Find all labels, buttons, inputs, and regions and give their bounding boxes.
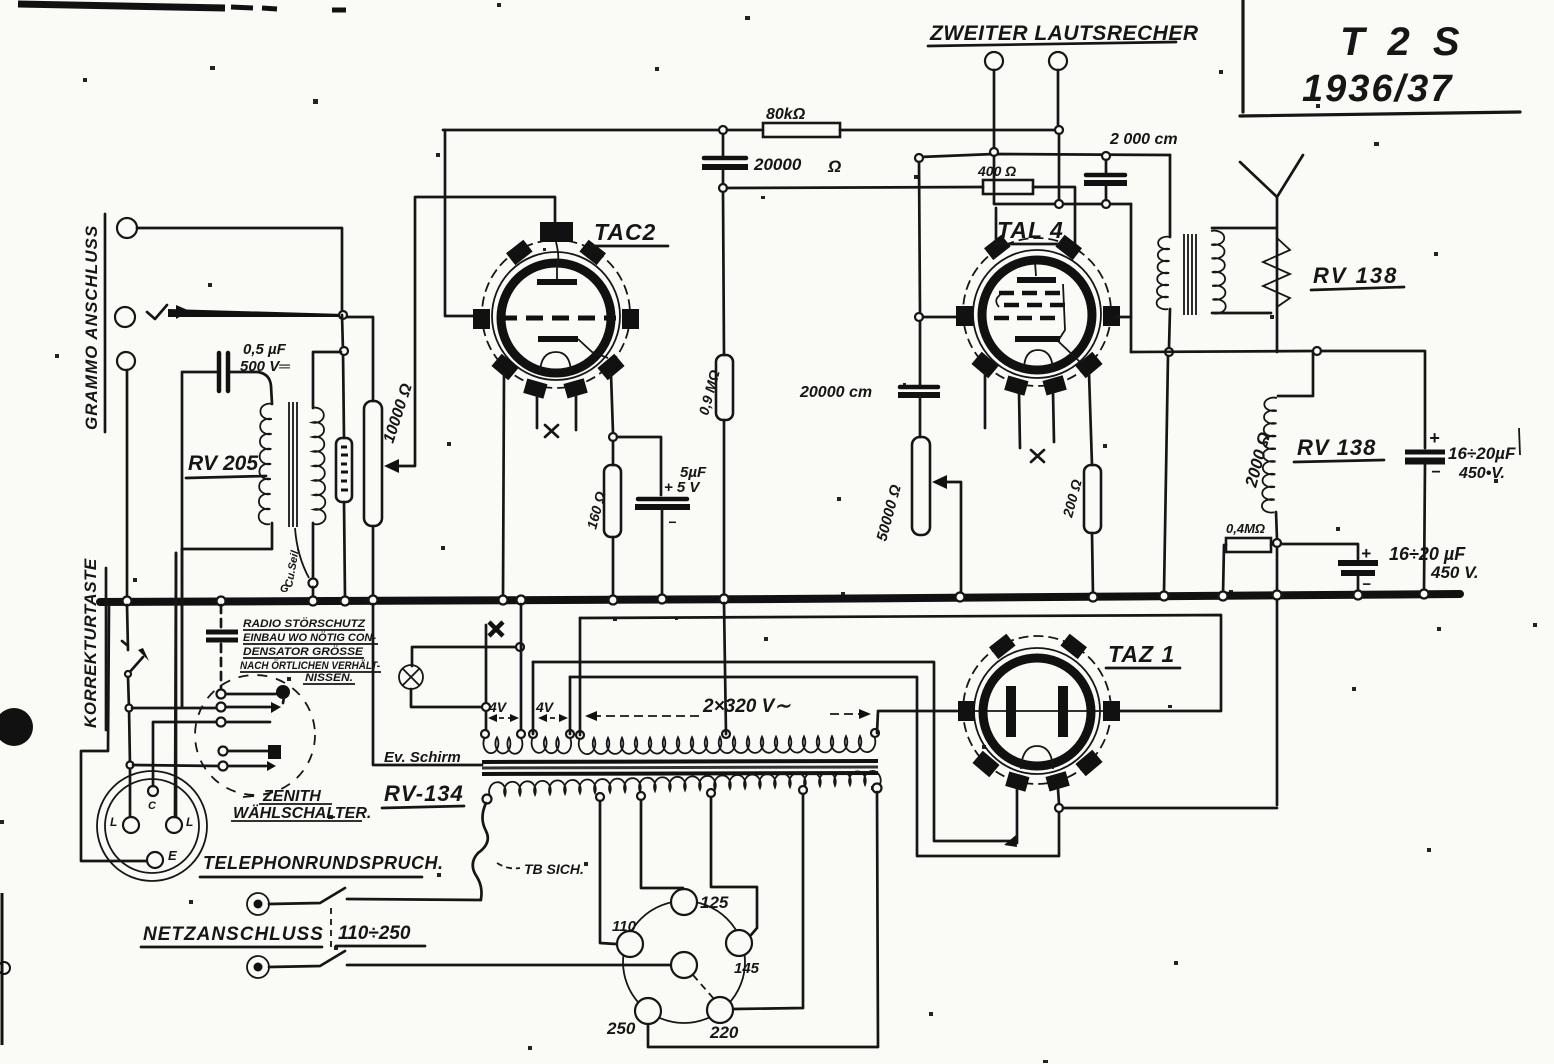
tube TAL4 envelope (963, 238, 1111, 386)
svg-text:110÷250: 110÷250 (338, 923, 411, 944)
tap wire 250 (648, 792, 878, 1047)
potentiometer 50000 wiper arrow (932, 475, 947, 489)
svg-text:KORREKTURTASTE: KORREKTURTASTE (81, 558, 100, 728)
secondary mains winding (483, 795, 492, 804)
potentiometer 10000 Ohm body (364, 401, 382, 526)
svg-text:145: 145 (734, 960, 760, 977)
tap wire 125 (641, 800, 683, 889)
wire anode pin to node C (611, 374, 613, 433)
voltage selector circle (623, 901, 745, 1023)
wire selector feeds (181, 549, 184, 707)
transformer RV205 primary coil (259, 404, 272, 525)
tube TAL4 cathode (1024, 350, 1053, 370)
shield braid line (295, 528, 309, 578)
resistor 0,9 MOhm (716, 355, 733, 420)
wire filament pin stubs (537, 396, 576, 430)
wire lower rail (994, 156, 1131, 204)
svg-text:450•V.: 450•V. (1458, 465, 1505, 482)
tap wire 110 (600, 801, 616, 944)
wire 0,9M to bus (723, 420, 726, 598)
x mark unconnected (545, 425, 558, 437)
wire secondary top to node B (313, 352, 341, 408)
zenith selector dashed circle (195, 675, 315, 795)
wire node N to cap1 (1321, 351, 1425, 448)
contact row3 (217, 718, 226, 727)
switch arm (wedge) (168, 309, 345, 317)
korrektur switch lever (128, 657, 143, 674)
svg-text:L: L (110, 815, 117, 829)
svg-text:NACH ÖRTLICHEN VERHÄLT-: NACH ÖRTLICHEN VERHÄLT- (240, 659, 380, 672)
wire cap2 to bus (1357, 576, 1360, 592)
capacitor 5uF plates (638, 497, 687, 502)
transformer RV205 core (289, 402, 297, 527)
wire anode pin down (1089, 373, 1092, 465)
svg-text:20000: 20000 (753, 155, 802, 174)
tap wire 145 (711, 797, 757, 935)
node I junction (1102, 152, 1110, 160)
korrektur switch fixed stub (122, 605, 128, 650)
tube TAZ1 anode plates (1006, 686, 1016, 737)
svg-text:TELEPHONRUNDSPRUCH.: TELEPHONRUNDSPRUCH. (203, 853, 444, 873)
switch contact check (147, 305, 167, 319)
transformer output primary coil (1157, 237, 1170, 310)
wire pair down to selector (176, 549, 182, 819)
svg-text:L: L (186, 815, 193, 829)
wire pole1 to fuse (347, 899, 481, 900)
wire node N jog to choke top (1278, 353, 1313, 396)
connector pin L left (123, 817, 139, 833)
svg-text:20000 cm: 20000 cm (799, 384, 872, 401)
wire cathode to B+ riser (1063, 807, 1277, 810)
transformer RV205 secondary coil (312, 408, 326, 525)
wire heater branch from bus (520, 604, 523, 732)
fuse Tb Sich curve (473, 803, 488, 899)
svg-text:C: C (148, 800, 157, 812)
terminal gramophone 2 (115, 307, 135, 327)
node R junction (126, 705, 133, 712)
tube TAC2 anode bar (538, 336, 578, 342)
svg-text:16÷20 µF: 16÷20 µF (1389, 544, 1466, 564)
wire speaker2 to secondary line (1058, 134, 1061, 200)
wire heater no2 return (570, 677, 1059, 856)
wire speaker1 down (993, 70, 996, 148)
switch gang dashes (330, 908, 332, 950)
capacitor 20000 plates (704, 156, 746, 161)
svg-text:DENSATOR GRÖSSE: DENSATOR GRÖSSE (243, 645, 364, 658)
wire vertical to output rail (1130, 204, 1133, 352)
potentiometer wiper arrow (384, 459, 399, 473)
wire terminal1 to node A (137, 228, 342, 315)
winding HV 2x320V (576, 731, 584, 739)
capacitor C 0,5uF plates (219, 353, 228, 391)
wire pilot branch (485, 625, 488, 732)
resistor 0,4 MOhm (1226, 538, 1271, 552)
wire HV right end to left anode (877, 711, 957, 733)
tube TAC2 envelope (482, 240, 630, 388)
terminal mains 2 (247, 956, 269, 978)
transformer core RV134 (482, 761, 878, 762)
connector pin L right (166, 817, 182, 833)
resistor RV138 field zigzag (1263, 238, 1290, 307)
HV center tap (722, 730, 730, 738)
wire primary bottom to node M (1169, 309, 1170, 348)
winding 4V no2 (529, 730, 537, 738)
node O junction (1273, 539, 1281, 547)
selector contact 220 (707, 997, 733, 1023)
wire secondary top rail (920, 154, 1170, 157)
svg-text:80kΩ: 80kΩ (766, 106, 806, 123)
wire HT feed down to grid pin (445, 130, 478, 316)
capacitor 2000cm plates (1086, 173, 1125, 178)
terminal mains 1 (247, 893, 269, 915)
wire HV left end to anode loop (579, 618, 582, 735)
tube TAC2 grid bar (556, 242, 558, 279)
wire node O through bus to TAZ1 cathode (1276, 547, 1279, 805)
resistor R-grid (small, value inside) (336, 438, 352, 502)
wire 0,4M left lead to bus (1223, 545, 1226, 595)
dimension arrows 4V windings (490, 717, 517, 719)
transformer output secondary coil (1211, 231, 1226, 314)
wire to 0,9 M resistor (723, 192, 724, 355)
wire cathode pins down (1016, 789, 1019, 843)
wire node M to bus (1164, 356, 1168, 592)
wire through tube filament line (966, 710, 1110, 712)
svg-text:2×320 V∼: 2×320 V∼ (702, 696, 791, 717)
ground bus line (100, 594, 1460, 602)
wire cathode pin to bus (503, 374, 504, 598)
svg-text:TAC2: TAC2 (594, 219, 656, 245)
bus junction nodes (123, 597, 132, 606)
contact row2 (217, 703, 226, 712)
svg-text:125: 125 (700, 893, 729, 912)
node S junction (127, 762, 134, 769)
wire row2 link (132, 707, 216, 710)
tube TAZ1 cathode (1021, 746, 1053, 769)
node M junction (1165, 348, 1173, 356)
selector contact 125 (671, 889, 697, 915)
tap wire 220 (734, 794, 803, 1009)
contact row4 (219, 747, 228, 756)
tube TAC2 cathode (540, 352, 571, 372)
svg-text:16÷20µF: 16÷20µF (1448, 444, 1516, 463)
resistor 80kOhm (763, 123, 840, 137)
node E junction (719, 184, 727, 192)
wire node A down (342, 315, 344, 438)
wire secondary top to antenna (1212, 227, 1276, 230)
stoerschutz dashed lead (220, 605, 223, 628)
svg-text:2 000 cm: 2 000 cm (1109, 131, 1178, 148)
svg-text:GRAMMO ANSCHLUSS: GRAMMO ANSCHLUSS (82, 225, 101, 430)
title box frame (1241, 0, 1244, 112)
svg-text:Ev. Schirm: Ev. Schirm (384, 749, 461, 766)
tube TAC2 top cap (540, 222, 573, 242)
tube TAL4 screen dashes (999, 291, 1062, 296)
shield line from bus (373, 604, 482, 765)
node A junction (339, 311, 347, 319)
contact row1 (217, 690, 226, 699)
node T junction (1055, 804, 1063, 812)
svg-text:WÄHLSCHALTER.: WÄHLSCHALTER. (233, 804, 371, 822)
selector contact 250 (635, 998, 661, 1024)
terminal speaker 2 (1049, 52, 1067, 70)
tube TAL4 pins (984, 235, 1011, 260)
wire node L to grid pin (923, 316, 962, 319)
node H junction (915, 154, 923, 162)
tube TAZ1 pins (989, 634, 1016, 659)
resistor 400 Ohm (983, 180, 1033, 194)
wire pin to rail (995, 208, 998, 240)
wire lamp top loop (412, 647, 517, 666)
stoerschutz dashed lead lower (220, 644, 223, 688)
wire grid pin feed (919, 162, 920, 313)
svg-text:TAZ 1: TAZ 1 (1108, 641, 1175, 667)
svg-text:TAL 4: TAL 4 (997, 217, 1064, 243)
svg-text:RV 138: RV 138 (1313, 263, 1398, 288)
wire pin C to row3 (153, 722, 217, 786)
svg-text:1936/37: 1936/37 (1302, 68, 1453, 110)
svg-text:RV-134: RV-134 (384, 781, 464, 806)
wire coupling to 400 Ohm (727, 187, 983, 188)
wire node O to cap2 (1281, 544, 1358, 559)
svg-text:RV 205: RV 205 (188, 452, 258, 475)
antenna symbol (1240, 155, 1303, 197)
wire secondary bottom to bus (312, 523, 315, 579)
svg-text:220: 220 (709, 1023, 739, 1042)
wire choke bottom to node O (1276, 512, 1277, 539)
contact row5 (219, 762, 228, 771)
wire 200 Ohm to bus (1092, 533, 1093, 596)
mains switch pole 2 (269, 951, 345, 967)
wire row5 link (133, 765, 218, 766)
svg-text:RV 138: RV 138 (1297, 435, 1376, 460)
secondary taps nodes (596, 793, 604, 801)
choke 2000 Ohm coil (1262, 398, 1277, 513)
selector rotor dashes (693, 975, 714, 999)
wire 0,4M right lead to node O (1271, 544, 1273, 545)
wire pin L right up (175, 553, 176, 817)
svg-text:4V: 4V (488, 699, 508, 715)
terminal gramophone 3 (117, 352, 135, 370)
svg-text:RADIO STÖRSCHUTZ: RADIO STÖRSCHUTZ (243, 617, 366, 630)
terminal speaker 1 (985, 52, 1003, 70)
wire resistor to bus (344, 502, 345, 598)
svg-text:400 Ω: 400 Ω (977, 163, 1016, 179)
svg-text:250: 250 (606, 1019, 636, 1038)
wire lamp bottom loop (411, 689, 482, 707)
wire terminal3 to bus (126, 370, 129, 598)
svg-text:Ω: Ω (827, 157, 841, 176)
wire pin stub left (984, 373, 987, 428)
wire primary bottom return (182, 523, 272, 549)
terminal gramophone 1 (117, 218, 137, 238)
wire pot top to node A (347, 317, 373, 401)
node N junction (1313, 347, 1321, 355)
x mark unconnected (1031, 450, 1044, 462)
wire cap1 to bus (1424, 464, 1425, 591)
wire heater no2 loop (533, 662, 1012, 841)
wire HV center tap from bus (724, 603, 726, 734)
wire B+ rail (1131, 351, 1313, 352)
tube TAL4 anode bar (1015, 336, 1060, 342)
tube TAC2 screen dashes (500, 316, 616, 321)
transformer output core (1184, 234, 1196, 315)
svg-text:EINBAU WO NÖTIG CON-: EINBAU WO NÖTIG CON- (243, 631, 376, 644)
connector plug outer (97, 771, 207, 881)
node D junction (719, 126, 727, 134)
tube TAL4 grid bar (1035, 262, 1036, 276)
node G junction (990, 148, 998, 156)
capacitor 16+20uF no2 plates (1338, 560, 1378, 566)
node K junction (1102, 200, 1110, 208)
node P junction (516, 643, 524, 651)
svg-text:ZENITH: ZENITH (262, 788, 321, 805)
svg-text:+: + (1361, 544, 1371, 563)
svg-text:E: E (168, 848, 177, 863)
connector pin E (147, 852, 163, 868)
svg-text:T 2 S: T 2 S (1340, 20, 1466, 64)
resistor 160 Ohm (604, 465, 621, 537)
wire cap right lead to primary top (230, 372, 272, 404)
wire speaker2 down (1057, 70, 1060, 126)
svg-text:NISSEN.: NISSEN. (305, 672, 353, 684)
svg-text:NETZANSCHLUSS: NETZANSCHLUSS (143, 924, 324, 945)
lamp dial (399, 665, 423, 689)
svg-text:−: − (1431, 464, 1440, 481)
wire filament stubs (1019, 392, 1054, 448)
potentiometer 50000 Ohm (912, 437, 930, 535)
capacitor stoerschutz plates (206, 630, 238, 635)
svg-text:0,5 µF: 0,5 µF (243, 341, 287, 358)
tube TAC2 pins (506, 240, 533, 265)
node F junction (1055, 126, 1063, 134)
mains switch pole 1 (269, 888, 345, 904)
wire lever down to pin L (128, 677, 130, 818)
connector pin C (148, 786, 158, 796)
node copper braid (309, 579, 318, 588)
winding 4V no1 (481, 730, 489, 738)
node J junction (1055, 200, 1063, 208)
wire right pin to vertical (1118, 316, 1131, 319)
wire HT rail top (443, 129, 719, 132)
svg-text:+ 5 V: + 5 V (664, 479, 701, 496)
svg-text:+: + (1429, 428, 1440, 448)
wire node C to cap 5uF (617, 437, 661, 495)
wire 5uF to bus (661, 509, 664, 598)
resistor 200 Ohm (1084, 465, 1101, 533)
tube TAZ1 envelope (963, 636, 1111, 784)
svg-text:TB SICH.: TB SICH. (524, 861, 584, 877)
node L junction (915, 313, 923, 321)
svg-text:0,4MΩ: 0,4MΩ (1226, 521, 1265, 536)
svg-text:−: − (1362, 576, 1371, 593)
wire pole2 to selector center (347, 964, 670, 967)
svg-text:110: 110 (612, 918, 637, 935)
wire pot bottom to bus (372, 526, 375, 600)
capacitor 20000cm plates (900, 385, 938, 390)
wire cap left lead (182, 372, 217, 549)
capacitor 16+20uF no1 plates (1405, 450, 1445, 455)
wire rail corner to primary (1169, 155, 1172, 237)
node C junction (609, 433, 617, 441)
wire secondary bottom return (1212, 312, 1271, 315)
svg-text:−: − (668, 514, 676, 530)
node Q junction (482, 703, 490, 711)
selector contact 145 (726, 930, 752, 956)
node B junction (340, 347, 348, 355)
svg-text:4V: 4V (535, 699, 555, 715)
wire bus end down to box (108, 605, 109, 750)
connector box bracket (81, 751, 147, 861)
svg-text:450 V.: 450 V. (1430, 563, 1479, 582)
dimension line 2x320 (592, 714, 866, 716)
X mark pilot (489, 622, 503, 636)
selector center contact (671, 952, 697, 978)
selector contact 110 (617, 931, 643, 957)
